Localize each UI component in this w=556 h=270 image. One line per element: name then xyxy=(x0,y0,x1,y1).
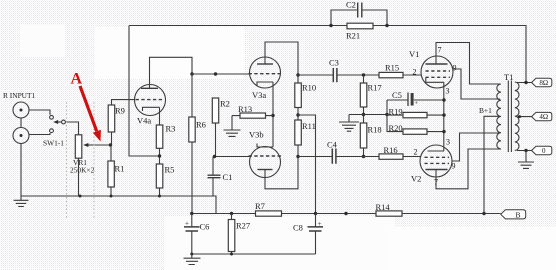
wire V2 screen to T1 xyxy=(452,133,500,161)
node n-R17-bot xyxy=(362,113,365,116)
node n-R2-top xyxy=(214,72,217,75)
annotation letter A (red) xyxy=(71,71,83,88)
terminal B xyxy=(501,210,526,220)
resistor R1 xyxy=(108,161,125,187)
terminal 0 xyxy=(532,146,552,155)
resistor R5 xyxy=(156,164,174,188)
svg-text:R3: R3 xyxy=(166,124,176,134)
svg-text:C6: C6 xyxy=(200,222,210,232)
wire V4a cathode lead xyxy=(159,107,161,125)
svg-text:3: 3 xyxy=(446,138,450,147)
ground symbol (secondary) xyxy=(518,151,534,169)
svg-text:R2: R2 xyxy=(220,99,230,109)
wire R6 bottom long xyxy=(191,142,193,214)
svg-text:9: 9 xyxy=(452,162,456,171)
node n-R27-b xyxy=(230,253,233,256)
wire jack shell ground xyxy=(20,118,22,196)
resistor R16 xyxy=(379,145,403,159)
ground symbol (bottom) xyxy=(184,254,201,265)
wire row156 c4 xyxy=(298,156,421,158)
annotation red arrow xyxy=(80,86,101,142)
wire ground rail xyxy=(21,196,216,214)
node wiper node xyxy=(109,143,112,146)
svg-text:R5: R5 xyxy=(165,165,175,175)
resistor R15 xyxy=(379,63,403,78)
wire B+ rail xyxy=(192,213,501,215)
svg-text:3: 3 xyxy=(446,87,450,96)
transformer T1 core xyxy=(508,81,511,153)
resistor R20 xyxy=(389,123,428,134)
resistor R7 xyxy=(255,201,282,216)
wire switch to VR1 xyxy=(65,122,78,135)
node cathode-fb node xyxy=(158,154,161,157)
svg-text:R1: R1 xyxy=(115,164,125,174)
wire V2 plate to T1 xyxy=(436,149,500,189)
node n-R17-top xyxy=(362,73,365,76)
pentode V1 xyxy=(409,49,453,88)
svg-text:R14: R14 xyxy=(376,202,391,212)
wire feedback left drop xyxy=(129,26,158,157)
triode V3a xyxy=(249,57,282,100)
svg-text:R11: R11 xyxy=(302,121,316,131)
terminal 4 ohm xyxy=(532,112,552,121)
svg-text:250K×2: 250K×2 xyxy=(70,166,95,175)
switch SW1-1 xyxy=(43,115,65,147)
wire V1 screen to T1 xyxy=(453,69,500,99)
capacitor C3 xyxy=(329,58,339,83)
node g3 xyxy=(158,195,161,198)
node n-444-132 xyxy=(442,130,445,133)
wire R20 wires xyxy=(387,131,444,133)
wire feedback top xyxy=(129,26,526,83)
wire V1 cathode column xyxy=(443,82,445,151)
svg-text:R10: R10 xyxy=(302,83,316,93)
terminal 8 ohm xyxy=(532,78,552,87)
wire jack2 to switch xyxy=(29,133,50,135)
svg-text:R27: R27 xyxy=(236,221,250,231)
svg-text:R18: R18 xyxy=(368,125,382,135)
svg-text:R21: R21 xyxy=(346,31,360,41)
svg-text:V4a: V4a xyxy=(137,116,151,126)
node n-R11-bot xyxy=(296,155,299,158)
svg-text:B: B xyxy=(515,210,520,219)
node fb-right xyxy=(385,24,388,27)
svg-text:C8: C8 xyxy=(293,223,303,233)
node n-C8 xyxy=(314,212,317,215)
svg-text:C1: C1 xyxy=(223,172,233,182)
svg-text:+: + xyxy=(185,220,189,228)
resistor R18 xyxy=(360,123,381,148)
wire R18 bottom xyxy=(363,148,365,157)
svg-text:+: + xyxy=(415,100,419,107)
node n-B xyxy=(482,212,485,215)
svg-text:0: 0 xyxy=(542,147,546,155)
wire R11 bottom xyxy=(297,145,299,157)
wire R6 top xyxy=(191,74,193,117)
svg-text:B+1: B+1 xyxy=(479,106,492,115)
wire block left rail xyxy=(386,100,388,132)
svg-text:V1: V1 xyxy=(409,49,419,59)
capacitor C2 xyxy=(331,0,387,26)
node n-C6 xyxy=(190,212,193,215)
triode V4a xyxy=(135,85,166,126)
resistor R2 xyxy=(212,98,230,123)
transformer T1 secondary xyxy=(515,82,519,150)
connector jack2 xyxy=(13,128,29,144)
wire V3b plate jog xyxy=(265,157,298,189)
resistor R13 xyxy=(238,104,266,118)
svg-text:A: A xyxy=(71,71,83,88)
svg-text:2: 2 xyxy=(413,68,417,77)
node n-R18-bot xyxy=(362,155,365,158)
node n-gnd-b xyxy=(190,253,193,256)
triode V3b xyxy=(249,130,282,178)
wire wiper to node xyxy=(93,144,111,146)
node n-R13 xyxy=(271,114,274,117)
svg-text:V2: V2 xyxy=(411,174,421,184)
resistor R21 xyxy=(346,23,373,40)
svg-text:R17: R17 xyxy=(368,83,382,93)
svg-text:R INPUT1: R INPUT1 xyxy=(3,91,36,100)
svg-text:2: 2 xyxy=(414,148,418,157)
svg-text:V3b: V3b xyxy=(249,130,264,140)
svg-text:R7: R7 xyxy=(255,201,265,211)
wire bias wire xyxy=(349,114,387,116)
node n-C1-R2 xyxy=(213,155,216,158)
resistor R6 xyxy=(189,117,206,142)
wire R1 leads xyxy=(110,145,112,196)
resistor R14 xyxy=(376,202,403,216)
resistor R11 xyxy=(295,120,316,145)
svg-text:+: + xyxy=(318,220,322,228)
node fb-left xyxy=(329,24,332,27)
node n-0-tap xyxy=(524,149,527,152)
node g1 xyxy=(79,195,82,198)
wire R9 top to V4a grid xyxy=(112,100,135,105)
net B+1 xyxy=(479,106,500,214)
wire R9 bottom xyxy=(111,132,113,145)
ground symbol (input) xyxy=(14,196,29,207)
svg-text:C4: C4 xyxy=(327,140,338,150)
wire R2 bottom xyxy=(215,123,217,157)
node n-444-115 xyxy=(442,113,445,116)
V1 pin labels xyxy=(413,46,457,96)
wire B rail riser xyxy=(298,115,316,214)
capacitor C1 xyxy=(208,157,233,197)
node g2 xyxy=(110,195,113,198)
svg-text:8Ω: 8Ω xyxy=(539,79,548,87)
svg-text:C3: C3 xyxy=(329,58,339,68)
wire V1 plate to T1 xyxy=(436,43,500,85)
wire row to V3a grid xyxy=(192,73,251,75)
resistor R27 xyxy=(228,220,250,252)
wire VR1 bottom xyxy=(78,158,80,196)
svg-text:C2: C2 xyxy=(346,0,356,10)
svg-text:7: 7 xyxy=(438,46,442,55)
wire jack1 to switch xyxy=(29,110,50,115)
dotted guide lines xyxy=(67,102,95,218)
svg-text:R15: R15 xyxy=(385,63,399,73)
potentiometer VR1 250K x2 xyxy=(70,135,95,175)
wire R5 bottom xyxy=(159,188,161,196)
svg-text:R9: R9 xyxy=(115,106,125,116)
wire R21 row xyxy=(331,25,387,27)
connector R INPUT1 jack1 xyxy=(3,91,36,118)
ground symbol (R13) xyxy=(224,116,241,137)
wire R3 to R5 xyxy=(159,148,161,164)
svg-text:R16: R16 xyxy=(384,145,398,155)
V2 pin labels xyxy=(414,138,456,187)
wire V4a plate loop xyxy=(150,57,193,88)
wire secondary taps xyxy=(517,83,532,151)
ground symbol (R17/R18) xyxy=(339,115,359,132)
wire bottom rail xyxy=(192,253,316,255)
wire R27 leads xyxy=(231,214,233,255)
svg-text:C5: C5 xyxy=(392,90,402,100)
wire R10 top lead xyxy=(297,75,299,83)
node n-192-74 xyxy=(190,72,193,75)
VR1 wiper arrow xyxy=(83,143,93,147)
wire V3a plate up xyxy=(265,42,298,75)
resistor R9 xyxy=(108,105,125,132)
node n-fb-tap xyxy=(524,81,527,84)
resistor R17 xyxy=(360,83,381,108)
wire V3a cathode down xyxy=(272,82,274,147)
node n-R10-top xyxy=(296,73,299,76)
capacitor C6 (electrolytic) xyxy=(184,214,209,255)
wire R19 wires xyxy=(387,114,444,116)
svg-text:V3a: V3a xyxy=(252,90,266,100)
resistor R19 xyxy=(389,107,428,118)
wire R17 leads xyxy=(363,75,365,123)
wire R10-R11 mid xyxy=(297,108,299,121)
pentode V2 xyxy=(411,145,452,184)
node n-346 xyxy=(344,212,347,215)
resistor R3 xyxy=(156,124,175,149)
wire grid row V3b xyxy=(213,156,251,158)
svg-text:9: 9 xyxy=(453,64,457,73)
svg-text:R6: R6 xyxy=(196,120,206,130)
wire R13 wires xyxy=(232,115,273,117)
node n-387 xyxy=(385,113,388,116)
capacitor C8 (electrolytic) xyxy=(293,214,323,255)
transformer T1 primary xyxy=(497,72,514,149)
node n-sec-mid xyxy=(518,115,521,118)
capacitor C4 xyxy=(327,140,338,164)
node n-R27 xyxy=(230,212,233,215)
svg-text:4Ω: 4Ω xyxy=(539,113,548,121)
node n-444-100 xyxy=(442,98,445,101)
wire row75 xyxy=(298,74,421,76)
node n-R10-bot xyxy=(296,113,299,116)
svg-text:R13: R13 xyxy=(238,104,252,114)
capacitor C5 xyxy=(387,90,444,107)
resistor R10 xyxy=(295,83,316,108)
svg-text:SW1-1: SW1-1 xyxy=(43,139,64,148)
